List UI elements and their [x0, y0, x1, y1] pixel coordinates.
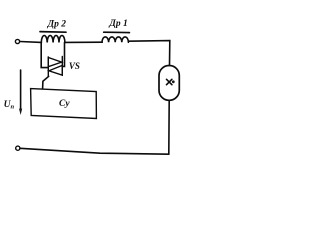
terminal input top	[15, 39, 19, 43]
wire top-right	[128, 41, 169, 66]
wire right-bottom vertical	[168, 100, 170, 154]
triac VS upper triangle	[48, 58, 61, 67]
triac VS right bar	[61, 57, 63, 76]
svg-text:Uп: Uп	[4, 100, 15, 111]
lamp EL envelope	[159, 66, 179, 101]
svg-text:Су: Су	[59, 99, 70, 109]
choke Dr1 core	[104, 31, 130, 33]
lamp electrode cross	[167, 79, 172, 84]
wire between chokes	[65, 41, 102, 43]
terminal input bottom	[16, 146, 20, 150]
wire shunt left vertical	[41, 43, 48, 68]
triac VS lower triangle	[49, 65, 62, 75]
svg-text:VS: VS	[69, 61, 80, 71]
lamp gas dot	[172, 80, 175, 83]
choke Dr1 winding	[102, 37, 128, 42]
choke Dr2 winding	[41, 35, 65, 42]
arrow Un	[20, 70, 22, 110]
control unit SU box	[31, 89, 97, 119]
svg-text:Др 2: Др 2	[47, 20, 67, 30]
wire bottom bus	[20, 148, 169, 154]
wire shunt right vertical	[62, 42, 64, 66]
choke Dr2 core	[40, 31, 66, 34]
svg-text:Др 1: Др 1	[108, 19, 127, 29]
triac VS left bar	[47, 57, 49, 76]
wire top-left	[20, 41, 41, 44]
triac VS gate lead	[43, 76, 49, 88]
